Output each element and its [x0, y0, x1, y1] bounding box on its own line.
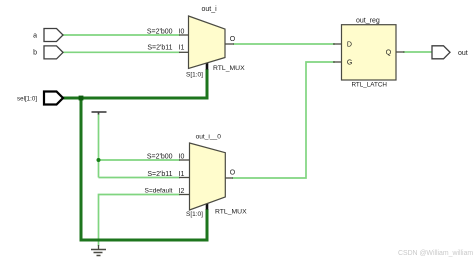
svg-text:I1: I1	[179, 45, 185, 52]
wire a (port a to mux1 I0)	[63, 34, 180, 36]
svg-text:I0: I0	[179, 153, 185, 160]
svg-text:RTL_MUX: RTL_MUX	[213, 65, 245, 72]
svg-text:S[1:0]: S[1:0]	[186, 72, 203, 79]
pin stub mux1 I1	[179, 51, 190, 53]
svg-text:out_i: out_i	[202, 6, 218, 13]
wire latch Q to out port	[403, 51, 432, 53]
svg-text:O: O	[230, 36, 236, 43]
svg-text:out_reg: out_reg	[356, 17, 380, 24]
port out	[432, 46, 450, 59]
pin stub mux1 I0	[179, 34, 190, 36]
wire const1 to mux2 I1	[99, 177, 181, 179]
svg-text:out: out	[458, 50, 468, 57]
svg-text:RTL_MUX: RTL_MUX	[215, 208, 247, 215]
pin stub latch D	[333, 43, 342, 45]
mux RTL_MUX out_i__0	[190, 143, 226, 210]
port a	[44, 29, 63, 42]
svg-text:S=2'b00: S=2'b00	[147, 28, 173, 35]
svg-text:I1: I1	[179, 171, 185, 178]
wire sel bus branch down to mux2 S	[81, 98, 207, 240]
svg-text:out_i__0: out_i__0	[196, 133, 222, 140]
pin stub mux2 O	[225, 177, 233, 179]
port b	[44, 46, 63, 59]
svg-text:D: D	[347, 41, 352, 48]
pin stub mux2 S (bus)	[206, 203, 209, 209]
svg-text:RTL_LATCH: RTL_LATCH	[352, 82, 388, 89]
pin stub mux2 I0	[179, 159, 190, 161]
svg-text:b: b	[33, 50, 37, 57]
svg-text:S=default: S=default	[144, 188, 172, 195]
svg-text:G: G	[347, 59, 352, 66]
svg-text:I2: I2	[179, 188, 185, 195]
power const1 symbol	[92, 112, 107, 115]
svg-text:S=2'b00: S=2'b00	[147, 153, 173, 160]
wire mux2 O to latch G	[232, 62, 335, 178]
pin stub mux1 S (bus)	[206, 63, 209, 70]
ground	[91, 245, 106, 256]
svg-text:S[1:0]: S[1:0]	[186, 211, 203, 218]
pin stub mux2 I1	[179, 177, 190, 179]
wire const1 to mux2 I0	[99, 159, 181, 161]
svg-text:S=2'b11: S=2'b11	[147, 45, 172, 52]
svg-text:CSDN @William_william: CSDN @William_william	[398, 250, 473, 257]
wire sel bus horizontal to mux1 S	[63, 69, 207, 98]
pin stub mux1 O	[225, 43, 235, 45]
mux RTL_MUX out_i	[189, 16, 226, 69]
wire b (port b to mux1 I1)	[63, 51, 180, 53]
svg-text:sel[1:0]: sel[1:0]	[17, 95, 37, 102]
port sel[1:0] (bus)	[44, 92, 63, 105]
svg-text:S=2'b11: S=2'b11	[147, 171, 172, 178]
pin stub latch Q	[396, 51, 405, 53]
junction const1 net at I0	[97, 158, 101, 162]
wire ground to mux2 I2	[99, 195, 181, 247]
svg-text:O: O	[230, 170, 236, 177]
junction sel bus	[79, 96, 84, 101]
svg-text:a: a	[33, 32, 37, 39]
svg-text:I0: I0	[179, 28, 185, 35]
pin stub latch G	[333, 61, 342, 63]
wire mux1 O to latch D	[233, 43, 335, 45]
latch RTL_LATCH out_reg	[342, 25, 397, 80]
wire const1 vertical	[98, 114, 100, 178]
pin stub mux2 I2	[179, 194, 190, 196]
svg-text:Q: Q	[386, 50, 392, 57]
